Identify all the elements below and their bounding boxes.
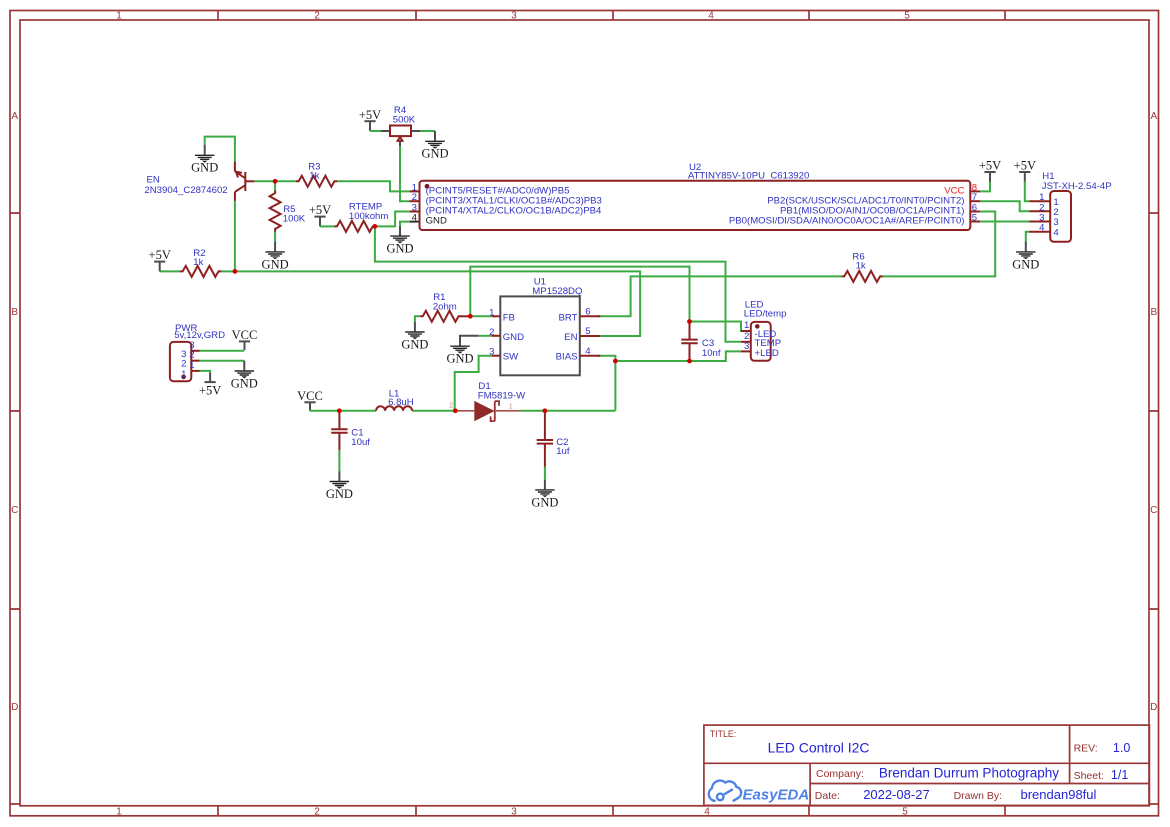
PWR pin 3: [191, 350, 200, 352]
svg-text:B: B: [1150, 307, 1157, 318]
wire VCC to L1: [310, 410, 376, 412]
resistor R2: [180, 266, 221, 277]
power flag +5V below PWR pin1: [199, 372, 221, 397]
svg-text:3: 3: [511, 11, 517, 22]
svg-text:GND: GND: [446, 352, 473, 366]
U2 pin 2 PB3: [410, 200, 420, 202]
LED pin1 marker dot: [755, 324, 760, 329]
ruler letters right: [1150, 111, 1157, 713]
wire U1 pin2 gray link to ground: [460, 336, 479, 346]
wire +5V to RTEMP: [320, 225, 334, 227]
ground flag below U1 pin2 (bars only): [446, 346, 473, 365]
svg-text:4: 4: [585, 346, 591, 357]
svg-text:JST-XH-2.54-4P: JST-XH-2.54-4P: [1042, 181, 1112, 192]
svg-text:MP1528DQ: MP1528DQ: [532, 286, 582, 297]
inductor L1: [376, 406, 412, 411]
wire U2 pin8 to +5V: [980, 182, 990, 192]
U1 pin 2 GND: [492, 335, 500, 337]
svg-text:A: A: [1150, 111, 1157, 122]
svg-text:1k: 1k: [309, 171, 319, 182]
wire emitter to EN rail: [234, 201, 236, 272]
U2 pin1 marker dot: [425, 184, 430, 189]
title block frame: [704, 725, 1150, 805]
svg-text:1: 1: [116, 806, 122, 817]
power flag VCC at PWR: [232, 328, 258, 350]
ground flag top left: [191, 145, 218, 175]
ground flag below H1: [1012, 242, 1039, 272]
U1 pin 3 SW: [492, 355, 500, 357]
svg-text:3: 3: [511, 806, 517, 817]
junction dots overlay: [233, 179, 692, 413]
svg-text:1: 1: [181, 369, 186, 380]
svg-text:5: 5: [902, 806, 908, 817]
ground flag left of R1: [401, 322, 428, 352]
power flag +5V at H1 pin1: [1014, 159, 1036, 182]
wire RTEMP to U2 pin3: [375, 212, 410, 227]
diode D1 FM5819-W: [455, 401, 520, 421]
svg-text:C: C: [11, 505, 18, 516]
svg-text:2: 2: [314, 11, 320, 22]
U2 pin 1 PB5: [410, 190, 420, 192]
U2 pin 7 PB2: [970, 200, 980, 202]
svg-text:GND: GND: [503, 332, 524, 343]
wire +5V to H1 pin1: [1025, 182, 1030, 201]
R1 right lead: [461, 315, 471, 317]
U2 pin 3 PB4: [410, 211, 420, 213]
svg-text:Date:: Date:: [815, 790, 840, 802]
svg-text:Brendan Durrum Photography: Brendan Durrum Photography: [879, 766, 1059, 781]
svg-text:6.8uH: 6.8uH: [388, 397, 414, 408]
capacitor C1: [331, 411, 347, 451]
svg-text:1uf: 1uf: [556, 446, 570, 457]
svg-text:PB0(MOSI/DI/SDA/AIN0/OC0A/OC1A: PB0(MOSI/DI/SDA/AIN0/OC0A/OC1A#/AREF/PCI…: [729, 216, 965, 227]
svg-text:REV:: REV:: [1074, 743, 1098, 755]
wire H1 pin4 to ground: [1026, 232, 1030, 242]
junction C2 node: [543, 409, 548, 414]
wire PWR pin3 to VCC: [200, 350, 245, 352]
wire D1 cathode to BIAS vertical: [520, 410, 615, 412]
H1 pin 3: [1030, 221, 1051, 223]
svg-text:4: 4: [708, 11, 714, 22]
power flag +5V at R2: [149, 248, 171, 271]
svg-text:6: 6: [585, 306, 590, 317]
svg-text:5: 5: [585, 326, 590, 337]
svg-text:5v,12v,GRD: 5v,12v,GRD: [174, 330, 225, 341]
ground flag right of PWR: [231, 361, 258, 391]
wire +5V to R2: [160, 270, 180, 272]
svg-text:10nf: 10nf: [702, 348, 721, 359]
U2 pin 6 PB1: [970, 211, 980, 213]
power flag +5V at R4: [359, 108, 381, 131]
wire base net transistor to R3: [254, 180, 296, 182]
wire C3 top to LED pin1: [690, 322, 751, 332]
ground flag below U2 pin4: [386, 226, 413, 256]
U1 pin 4 BIAS: [580, 355, 600, 357]
U2 pin 4 GND: [410, 221, 420, 223]
svg-text:EN: EN: [564, 332, 577, 343]
capacitor C2: [537, 411, 553, 467]
wire BIAS rail to C3 bottom and LED pin3: [615, 351, 740, 361]
ruler numbers top: [116, 11, 910, 22]
svg-text:Sheet:: Sheet:: [1074, 770, 1104, 782]
resistor R3: [296, 176, 337, 187]
H1 pin 4: [1030, 231, 1051, 233]
svg-text:1: 1: [744, 320, 749, 331]
svg-text:100K: 100K: [283, 214, 306, 225]
capacitor C3: [681, 322, 697, 362]
wire R1 left to ground: [415, 316, 420, 321]
transistor EN 2N3904_C2874602: [235, 162, 254, 201]
svg-text:100kohm: 100kohm: [349, 211, 388, 222]
H1 pin 1: [1030, 200, 1051, 202]
U1 pin 6 BRT: [580, 315, 600, 317]
wire L1 to D1: [412, 410, 455, 412]
PWR pin1 marker dot: [181, 375, 186, 380]
svg-text:(PCINT4/XTAL2/CLKO/OC1B/ADC2)P: (PCINT4/XTAL2/CLKO/OC1B/ADC2)PB4: [426, 206, 602, 217]
ruler tick marks left band: [10, 213, 20, 804]
resistor R6: [842, 271, 883, 282]
wire R1 to U1.FB: [470, 315, 492, 317]
ground flag below C1: [326, 471, 353, 501]
LED pin 2 TEMP: [741, 341, 751, 343]
wire collector net to GND: [205, 137, 235, 162]
svg-text:B: B: [11, 307, 18, 318]
wire U1.SW to D1 anode: [455, 356, 492, 411]
junction C3 top: [687, 319, 692, 324]
PWR pin 2: [191, 360, 200, 362]
svg-text:FB: FB: [503, 312, 515, 323]
wire U1 pin2 green stub: [479, 335, 492, 337]
ground flag below C2: [531, 480, 558, 510]
svg-text:D: D: [1150, 702, 1157, 713]
resistor R5: [270, 191, 281, 232]
svg-text:1: 1: [489, 307, 494, 318]
ground flag right of R4: [421, 131, 448, 161]
wire U2 pin4 to ground: [400, 222, 410, 226]
wire R5 to ground: [274, 231, 276, 242]
svg-text:1.0: 1.0: [1113, 741, 1130, 755]
svg-text:1/1: 1/1: [1111, 768, 1128, 782]
wire R6 to U1.BRT: [598, 276, 842, 316]
junction R1 FB node: [468, 314, 473, 319]
svg-text:1k: 1k: [193, 257, 203, 268]
svg-text:2022-08-27: 2022-08-27: [863, 787, 930, 802]
power flag VCC at C1: [297, 389, 323, 411]
svg-text:4: 4: [704, 806, 710, 817]
resistor RTEMP: [334, 221, 375, 232]
LED pin 3 +LED: [741, 350, 751, 352]
svg-text:GND: GND: [426, 216, 447, 227]
power flag +5V at RTEMP: [309, 203, 331, 226]
svg-text:1k: 1k: [856, 260, 866, 271]
IC U2 ATTINY85V body: [420, 181, 971, 230]
svg-text:2: 2: [314, 806, 320, 817]
wire R4 wiper to U2 pin2: [400, 146, 410, 201]
U1 pin 1 FB: [492, 315, 500, 317]
svg-text:5: 5: [972, 212, 977, 223]
svg-text:3: 3: [489, 347, 494, 358]
wire base to R5: [274, 181, 276, 190]
svg-text:1: 1: [116, 11, 122, 22]
svg-text:4: 4: [412, 213, 418, 224]
power flag +5V at U2 pin8: [979, 159, 1001, 182]
ground flag below R5: [262, 242, 289, 272]
wire C2 bottom to ground: [544, 467, 546, 480]
connector PWR body: [170, 342, 191, 381]
EasyEDA logo cloud icon: [709, 781, 741, 801]
svg-text:Company:: Company:: [816, 768, 864, 780]
LED pin 1 -LED: [741, 330, 751, 332]
svg-text:2N3904_C2874602: 2N3904_C2874602: [144, 185, 227, 196]
svg-text:D: D: [11, 702, 18, 713]
wire FB net to C3 top and LED pin1: [470, 267, 689, 322]
svg-text:2: 2: [489, 327, 494, 338]
svg-text:1: 1: [189, 360, 194, 371]
svg-text:ATTINY85V-10PU_C613920: ATTINY85V-10PU_C613920: [688, 171, 809, 182]
connector H1 JST-XH-2.54-4P body: [1050, 191, 1071, 242]
junction R2 emitter: [233, 269, 238, 274]
U2 pin 5 PB0: [970, 221, 980, 223]
svg-text:LED/temp: LED/temp: [744, 309, 787, 320]
svg-text:EasyEDA: EasyEDA: [743, 787, 810, 804]
wire U2 pin5 to H1 pin3: [980, 221, 1029, 223]
junction C3 bottom: [687, 359, 692, 364]
potentiometer R4: [381, 126, 421, 147]
PWR pin 1: [191, 370, 200, 372]
svg-text:5: 5: [904, 11, 910, 22]
wire PWR pin1 to +5V: [200, 371, 210, 372]
ruler tick marks top band: [218, 11, 1005, 21]
wire R3 to U2 pin1: [337, 181, 410, 191]
wire C1 bottom to ground: [338, 450, 340, 471]
svg-text:Drawn By:: Drawn By:: [954, 790, 1002, 802]
U1 pin 5 EN: [580, 335, 600, 337]
svg-text:FM5819-W: FM5819-W: [478, 390, 526, 401]
ruler letters left: [11, 111, 18, 713]
resistor R1: [420, 311, 461, 322]
svg-text:EN: EN: [147, 174, 160, 185]
wire +5V to R4: [370, 130, 381, 132]
svg-text:2: 2: [449, 401, 453, 410]
junction RTEMP node: [373, 224, 378, 229]
svg-text:4: 4: [1053, 227, 1059, 238]
svg-text:4: 4: [1039, 223, 1045, 234]
U2 pin 8 VCC: [970, 190, 980, 192]
svg-text:+LED: +LED: [755, 348, 779, 359]
svg-text:TITLE:: TITLE:: [710, 729, 736, 739]
wire U2 pin6 to R6: [882, 212, 995, 277]
svg-text:LED Control I2C: LED Control I2C: [768, 740, 870, 756]
svg-text:BRT: BRT: [558, 312, 577, 323]
wire U2 pin7 to H1 pin2: [980, 201, 1029, 211]
svg-text:3: 3: [744, 341, 749, 352]
junction C1 node: [337, 409, 342, 414]
ruler tick marks bottom band: [218, 806, 1005, 816]
wire U1.BIAS to BIAS rail: [598, 356, 615, 411]
svg-text:C: C: [1150, 505, 1157, 516]
ruler tick marks right band: [1149, 213, 1159, 804]
wire EN rail R2 to U1.EN: [221, 271, 640, 336]
connector LED LED/temp body: [751, 322, 771, 361]
wire R4 right to GND: [420, 130, 435, 132]
svg-text:BIAS: BIAS: [556, 352, 578, 363]
H1 pin 2: [1030, 210, 1051, 212]
wire PWR pin2 to ground: [200, 360, 245, 362]
svg-text:1: 1: [509, 402, 513, 411]
svg-text:500K: 500K: [393, 114, 416, 125]
svg-text:10uf: 10uf: [351, 437, 370, 448]
svg-text:brendan98ful: brendan98ful: [1021, 787, 1097, 802]
svg-text:2ohm: 2ohm: [433, 301, 457, 312]
junction D1 anode SW node: [453, 409, 458, 414]
junction base R5: [273, 179, 278, 184]
junction BIAS node: [613, 359, 618, 364]
op-amp U1 MP1528DQ body: [500, 296, 580, 375]
wire TEMP net RTEMP to LED pin2: [375, 226, 741, 341]
svg-text:A: A: [11, 111, 18, 122]
ruler numbers bottom: [116, 806, 908, 817]
svg-text:SW: SW: [503, 352, 519, 363]
